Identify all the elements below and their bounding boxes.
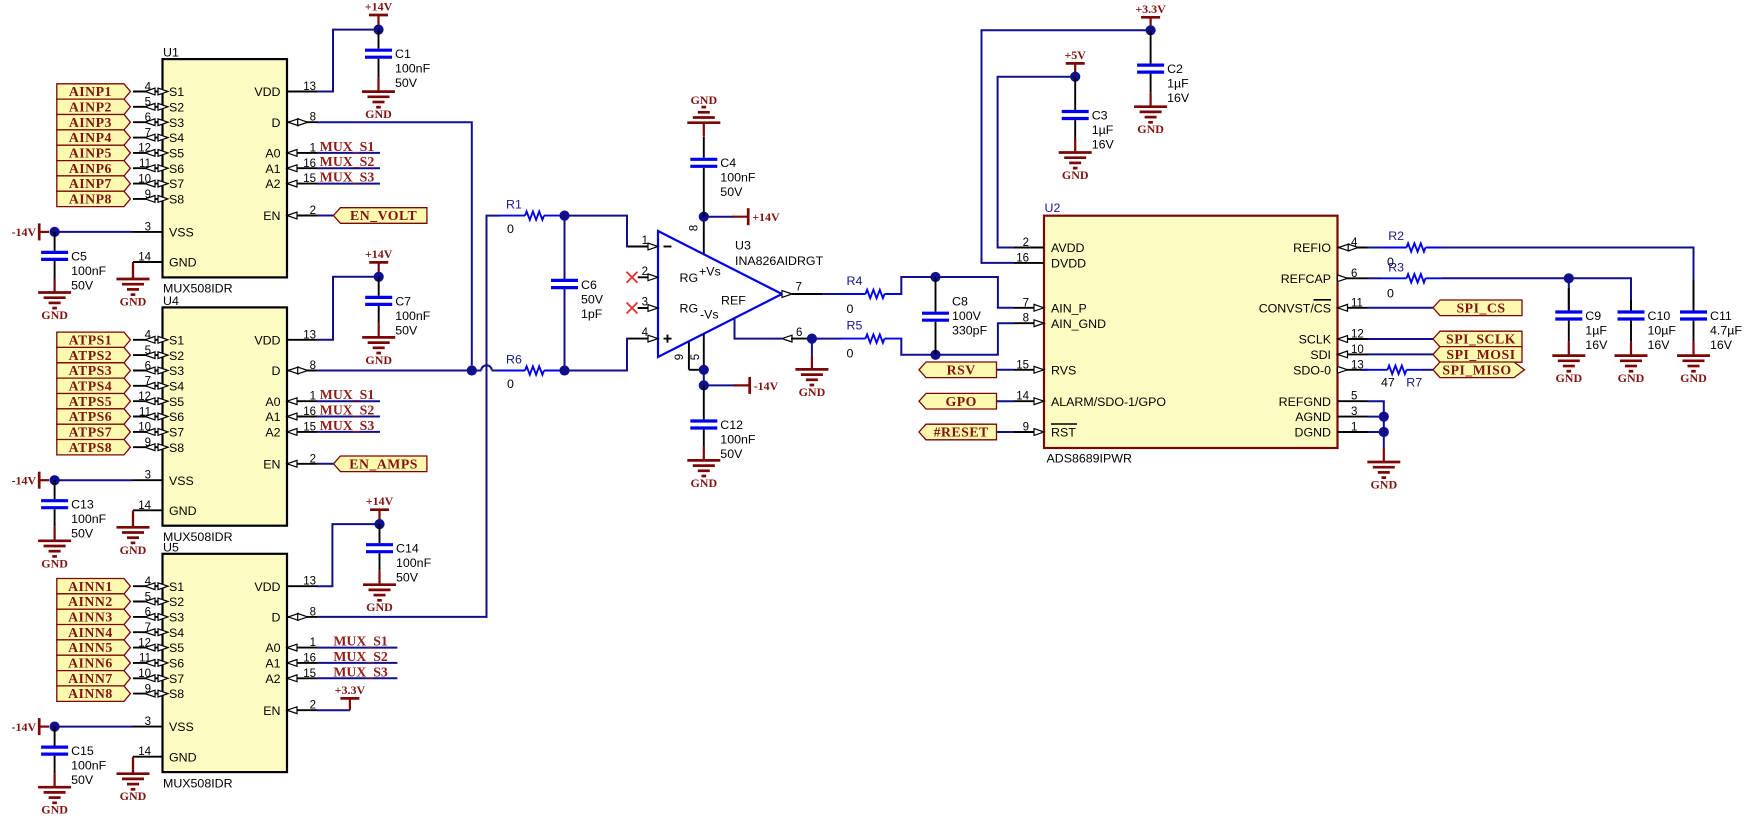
svg-text:GND: GND xyxy=(120,789,147,803)
power +14V xyxy=(365,247,393,272)
port AINN7 xyxy=(57,671,131,686)
svg-text:U2: U2 xyxy=(1045,201,1061,215)
svg-text:C13: C13 xyxy=(71,498,94,512)
svg-text:RVS: RVS xyxy=(1051,363,1076,377)
svg-text:13: 13 xyxy=(1351,359,1364,371)
wire xyxy=(1368,277,1383,279)
svg-text:C9: C9 xyxy=(1585,309,1601,323)
capacitor C4 xyxy=(690,137,756,217)
svg-text:330pF: 330pF xyxy=(952,324,988,338)
capacitor C5 xyxy=(41,232,107,292)
svg-text:MUX_S1: MUX_S1 xyxy=(333,634,388,649)
wire xyxy=(561,216,628,247)
svg-text:50V: 50V xyxy=(71,278,94,292)
port AINP7 xyxy=(57,176,131,191)
svg-text:10: 10 xyxy=(1351,344,1364,356)
svg-text:13: 13 xyxy=(303,329,316,341)
wire xyxy=(936,277,1015,308)
svg-text:7: 7 xyxy=(145,127,151,139)
net label MUX_S3 xyxy=(317,418,380,433)
ground xyxy=(795,355,828,399)
wire xyxy=(55,231,133,233)
svg-text:9: 9 xyxy=(145,683,151,695)
svg-text:R7: R7 xyxy=(1406,376,1422,390)
svg-text:A2: A2 xyxy=(265,177,280,191)
svg-text:MUX_S3: MUX_S3 xyxy=(333,664,388,679)
svg-text:AVDD: AVDD xyxy=(1051,241,1085,255)
svg-text:47: 47 xyxy=(1381,376,1395,390)
svg-text:50V: 50V xyxy=(395,323,418,337)
svg-text:GPO: GPO xyxy=(945,394,976,409)
svg-text:CONVST/CS: CONVST/CS xyxy=(1259,301,1331,315)
svg-text:SDI: SDI xyxy=(1310,348,1331,362)
svg-text:AINN5: AINN5 xyxy=(68,640,113,655)
svg-text:14: 14 xyxy=(138,746,151,758)
svg-text:R3: R3 xyxy=(1388,261,1404,275)
svg-text:1: 1 xyxy=(642,235,648,247)
svg-text:A1: A1 xyxy=(265,410,280,424)
svg-text:S6: S6 xyxy=(169,162,184,176)
svg-text:GND: GND xyxy=(1137,122,1164,136)
svg-text:4: 4 xyxy=(1351,237,1358,249)
port SPI_SCLK xyxy=(1433,331,1522,347)
net label MUX_S1 xyxy=(317,387,380,402)
junction xyxy=(374,519,384,529)
svg-text:100nF: 100nF xyxy=(720,171,756,185)
junction xyxy=(1070,72,1080,82)
svg-text:GND: GND xyxy=(365,107,392,121)
port EN_VOLT xyxy=(334,208,427,224)
svg-text:RST: RST xyxy=(1051,426,1076,440)
svg-text:RG: RG xyxy=(680,302,699,316)
svg-text:100nF: 100nF xyxy=(71,512,107,526)
capacitor C10 xyxy=(1618,300,1677,352)
port AINN3 xyxy=(57,609,131,624)
svg-text:12: 12 xyxy=(138,143,151,155)
svg-text:SPI_CS: SPI_CS xyxy=(1456,300,1505,315)
svg-text:4: 4 xyxy=(145,81,152,93)
ground xyxy=(1367,448,1400,492)
svg-text:5: 5 xyxy=(145,591,151,603)
svg-text:4: 4 xyxy=(145,330,152,342)
wire xyxy=(1366,369,1368,371)
svg-text:GND: GND xyxy=(1370,478,1397,492)
svg-text:10: 10 xyxy=(138,422,151,434)
svg-text:C5: C5 xyxy=(71,249,87,263)
svg-text:5: 5 xyxy=(690,354,702,360)
port RSV xyxy=(919,362,997,378)
wire xyxy=(997,431,1015,433)
junction xyxy=(50,722,60,732)
svg-text:EN: EN xyxy=(263,209,280,223)
svg-text:11: 11 xyxy=(139,653,151,665)
svg-text:ALARM/SDO-1/GPO: ALARM/SDO-1/GPO xyxy=(1051,395,1166,409)
svg-text:15: 15 xyxy=(303,421,316,433)
svg-text:7: 7 xyxy=(145,376,151,388)
ground xyxy=(687,93,720,137)
svg-text:U4: U4 xyxy=(163,294,179,308)
wire xyxy=(317,463,334,465)
svg-text:S8: S8 xyxy=(169,193,184,207)
svg-text:+14V: +14V xyxy=(366,494,394,508)
svg-text:-14V: -14V xyxy=(754,379,779,393)
svg-text:R1: R1 xyxy=(506,198,522,212)
svg-text:4.7µF: 4.7µF xyxy=(1710,323,1742,337)
svg-text:8: 8 xyxy=(1023,313,1029,325)
svg-text:3: 3 xyxy=(642,297,648,309)
wire xyxy=(1568,278,1570,310)
svg-text:ATPS5: ATPS5 xyxy=(69,394,113,409)
svg-text:DVDD: DVDD xyxy=(1051,257,1086,271)
svg-text:A0: A0 xyxy=(265,641,280,655)
svg-text:6: 6 xyxy=(145,112,151,124)
svg-text:7: 7 xyxy=(145,622,151,634)
svg-text:3: 3 xyxy=(1351,406,1357,418)
no-connect X xyxy=(627,303,638,314)
svg-text:U5: U5 xyxy=(163,540,179,554)
svg-text:C8: C8 xyxy=(952,295,968,309)
svg-text:16: 16 xyxy=(303,652,316,664)
svg-text:8: 8 xyxy=(310,360,316,372)
power +14V xyxy=(366,494,394,519)
svg-text:50V: 50V xyxy=(71,773,94,787)
svg-text:100nF: 100nF xyxy=(395,309,431,323)
svg-text:S4: S4 xyxy=(169,379,184,393)
svg-text:1: 1 xyxy=(1351,422,1357,434)
svg-text:4: 4 xyxy=(145,576,152,588)
capacitor C12 xyxy=(690,385,756,461)
svg-text:+14V: +14V xyxy=(752,210,780,224)
svg-text:3: 3 xyxy=(145,221,151,233)
svg-text:GND: GND xyxy=(366,600,393,614)
power +3.3V xyxy=(1135,2,1166,28)
svg-text:16V: 16V xyxy=(1585,338,1608,352)
svg-text:10: 10 xyxy=(138,668,151,680)
svg-text:-Vs: -Vs xyxy=(700,308,719,322)
svg-text:1µF: 1µF xyxy=(1585,323,1607,337)
power +14V xyxy=(365,0,393,25)
svg-text:REFIO: REFIO xyxy=(1293,241,1331,255)
svg-text:MUX_S3: MUX_S3 xyxy=(320,170,375,185)
wire xyxy=(317,122,472,365)
capacitor C8 xyxy=(922,277,988,355)
svg-text:MUX_S1: MUX_S1 xyxy=(320,387,375,402)
svg-text:D: D xyxy=(272,364,281,378)
no-connect X xyxy=(627,272,638,283)
junction xyxy=(1379,412,1389,422)
ground xyxy=(1059,139,1092,183)
wire xyxy=(1368,431,1384,433)
svg-text:VSS: VSS xyxy=(169,474,194,488)
svg-text:ATPS6: ATPS6 xyxy=(69,409,113,424)
svg-text:+Vs: +Vs xyxy=(699,265,721,279)
port AINP6 xyxy=(57,161,131,176)
capacitor C3 xyxy=(1062,77,1115,152)
svg-text:16V: 16V xyxy=(1648,338,1671,352)
port AINP5 xyxy=(57,145,131,160)
svg-text:S1: S1 xyxy=(169,85,184,99)
svg-text:EN: EN xyxy=(263,457,280,471)
svg-text:ATPS7: ATPS7 xyxy=(69,425,113,440)
resistor R6 xyxy=(501,353,561,392)
svg-text:100nF: 100nF xyxy=(71,264,107,278)
junction xyxy=(699,212,709,222)
svg-text:S6: S6 xyxy=(169,657,184,671)
port AINP4 xyxy=(57,130,131,145)
port #RESET xyxy=(919,424,997,440)
svg-text:16V: 16V xyxy=(1092,137,1115,151)
svg-text:S1: S1 xyxy=(169,580,184,594)
svg-text:C2: C2 xyxy=(1167,62,1183,76)
svg-text:0: 0 xyxy=(507,377,514,391)
port AINP2 xyxy=(57,99,131,114)
svg-text:MUX_S3: MUX_S3 xyxy=(320,418,375,433)
svg-text:MUX_S2: MUX_S2 xyxy=(320,154,375,169)
svg-text:AINP8: AINP8 xyxy=(69,192,112,207)
svg-text:MUX508IDR: MUX508IDR xyxy=(163,776,233,790)
power -14V xyxy=(12,718,49,735)
svg-text:ADS8689IPWR: ADS8689IPWR xyxy=(1047,452,1132,466)
port AINN4 xyxy=(57,625,131,640)
svg-text:14: 14 xyxy=(1016,391,1029,403)
wire xyxy=(901,277,931,294)
port AINN5 xyxy=(57,640,131,655)
net label MUX_S2 xyxy=(317,403,380,418)
power -14V xyxy=(12,472,49,489)
svg-text:S4: S4 xyxy=(169,131,184,145)
svg-text:A1: A1 xyxy=(265,657,280,671)
wire xyxy=(317,215,334,217)
svg-text:R2: R2 xyxy=(1388,229,1404,243)
port SPI_MOSI xyxy=(1433,347,1522,363)
capacitor C15 xyxy=(41,727,107,787)
port ATPS4 xyxy=(57,378,131,393)
svg-text:15: 15 xyxy=(303,668,316,680)
svg-text:5: 5 xyxy=(145,97,151,109)
power +14V xyxy=(704,208,780,225)
wire xyxy=(822,293,841,295)
svg-text:S5: S5 xyxy=(169,641,184,655)
svg-text:AINN8: AINN8 xyxy=(68,686,113,701)
svg-text:S3: S3 xyxy=(169,364,184,378)
svg-text:VDD: VDD xyxy=(254,85,280,99)
svg-text:16V: 16V xyxy=(1710,338,1733,352)
svg-text:A0: A0 xyxy=(265,147,280,161)
net label MUX_S3 xyxy=(317,170,380,185)
ground xyxy=(38,279,71,323)
svg-text:50V: 50V xyxy=(71,527,94,541)
svg-text:2: 2 xyxy=(310,205,316,217)
wire xyxy=(1368,247,1383,249)
svg-text:VDD: VDD xyxy=(254,580,280,594)
svg-text:-14V: -14V xyxy=(12,225,37,239)
op-amp U3 xyxy=(628,217,824,370)
ground xyxy=(1552,342,1585,386)
svg-text:8: 8 xyxy=(310,606,316,618)
svg-text:D: D xyxy=(272,611,281,625)
power +5V xyxy=(1064,48,1086,74)
wire xyxy=(317,524,375,586)
svg-text:DGND: DGND xyxy=(1295,426,1332,440)
svg-text:S5: S5 xyxy=(169,395,184,409)
net label MUX_S1 xyxy=(317,634,397,649)
svg-text:GND: GND xyxy=(1555,371,1582,385)
junction xyxy=(1564,273,1574,283)
ground xyxy=(362,323,395,367)
port AINP8 xyxy=(57,191,131,206)
svg-text:S6: S6 xyxy=(169,410,184,424)
port ATPS2 xyxy=(57,347,131,362)
svg-text:EN_AMPS: EN_AMPS xyxy=(349,456,418,471)
svg-text:SPI_MISO: SPI_MISO xyxy=(1442,362,1511,377)
capacitor C7 xyxy=(365,277,431,338)
svg-text:MUX_S2: MUX_S2 xyxy=(320,403,375,418)
svg-text:A2: A2 xyxy=(265,672,280,686)
svg-text:A0: A0 xyxy=(265,395,280,409)
svg-text:S7: S7 xyxy=(169,177,184,191)
wire xyxy=(1423,369,1433,371)
svg-text:14: 14 xyxy=(138,252,151,264)
svg-text:S1: S1 xyxy=(169,333,184,347)
svg-text:9: 9 xyxy=(674,354,686,360)
port ATPS1 xyxy=(57,332,131,347)
wire xyxy=(901,339,931,355)
svg-text:0: 0 xyxy=(507,222,514,236)
port GPO xyxy=(919,393,997,409)
svg-text:C12: C12 xyxy=(720,418,743,432)
wire xyxy=(997,400,1015,402)
resistor R4 xyxy=(841,274,901,316)
svg-text:#RESET: #RESET xyxy=(934,425,989,440)
svg-text:AINP1: AINP1 xyxy=(69,84,112,99)
svg-text:9: 9 xyxy=(145,437,151,449)
svg-text:GND: GND xyxy=(120,295,147,309)
svg-text:10µF: 10µF xyxy=(1648,323,1677,337)
port EN_AMPS xyxy=(334,456,427,472)
svg-text:1: 1 xyxy=(310,142,316,154)
ground xyxy=(1677,342,1710,386)
svg-text:8: 8 xyxy=(310,112,316,124)
svg-text:12: 12 xyxy=(1351,329,1364,341)
svg-text:R5: R5 xyxy=(847,319,863,333)
svg-text:3: 3 xyxy=(145,470,151,482)
svg-text:4: 4 xyxy=(642,327,649,339)
port AINP1 xyxy=(57,84,131,99)
junction xyxy=(50,475,60,485)
svg-text:RG: RG xyxy=(680,271,699,285)
svg-text:S2: S2 xyxy=(169,100,184,114)
svg-text:SPI_SCLK: SPI_SCLK xyxy=(1446,332,1516,347)
junction xyxy=(699,365,709,375)
wire xyxy=(703,370,705,386)
svg-text:1µF: 1µF xyxy=(1092,123,1114,137)
svg-text:SPI_MOSI: SPI_MOSI xyxy=(1446,347,1515,362)
net label MUX_S1 xyxy=(317,139,380,154)
svg-text:A2: A2 xyxy=(265,426,280,440)
svg-text:1µF: 1µF xyxy=(1167,77,1189,91)
svg-text:REF: REF xyxy=(721,294,746,308)
ground xyxy=(362,78,395,122)
wire xyxy=(317,277,374,340)
svg-text:5: 5 xyxy=(145,345,151,357)
svg-text:12: 12 xyxy=(138,391,151,403)
svg-text:9: 9 xyxy=(1023,422,1029,434)
junction xyxy=(559,211,569,221)
port SPI_MISO xyxy=(1433,362,1525,378)
power +3.3V xyxy=(335,683,366,710)
svg-text:ATPS4: ATPS4 xyxy=(69,378,113,393)
svg-text:7: 7 xyxy=(796,282,802,294)
svg-text:16: 16 xyxy=(1016,252,1029,264)
svg-text:50V: 50V xyxy=(396,571,419,585)
svg-text:AINN2: AINN2 xyxy=(68,594,113,609)
junction xyxy=(807,334,817,344)
svg-text:S8: S8 xyxy=(169,687,184,701)
svg-text:D: D xyxy=(272,116,281,130)
ground xyxy=(363,571,396,615)
ground xyxy=(1134,93,1167,137)
svg-text:C3: C3 xyxy=(1092,108,1108,122)
svg-text:MUX_S2: MUX_S2 xyxy=(333,649,388,664)
svg-text:ATPS3: ATPS3 xyxy=(69,363,113,378)
svg-text:6: 6 xyxy=(796,327,802,339)
svg-text:C1: C1 xyxy=(395,47,411,61)
wire xyxy=(1368,338,1434,340)
wire xyxy=(1368,416,1384,418)
wire xyxy=(735,318,783,339)
wire xyxy=(1442,278,1631,310)
svg-text:100nF: 100nF xyxy=(395,62,431,76)
junction xyxy=(50,227,60,237)
svg-text:U3: U3 xyxy=(735,239,751,253)
ground xyxy=(117,757,150,804)
svg-text:3: 3 xyxy=(145,716,151,728)
svg-text:GND: GND xyxy=(169,750,197,764)
port ATPS7 xyxy=(57,424,131,439)
svg-text:100nF: 100nF xyxy=(396,556,432,570)
svg-text:EN_VOLT: EN_VOLT xyxy=(350,208,417,223)
multiplexer U1 xyxy=(133,46,318,296)
svg-text:INA826AIDRGT: INA826AIDRGT xyxy=(735,254,824,268)
wire xyxy=(1368,401,1384,448)
svg-text:13: 13 xyxy=(303,81,316,93)
svg-text:15: 15 xyxy=(303,173,316,185)
svg-text:GND: GND xyxy=(690,476,717,490)
svg-text:GND: GND xyxy=(690,93,717,107)
svg-text:11: 11 xyxy=(139,406,151,418)
ground xyxy=(1615,342,1648,386)
svg-text:AIN_P: AIN_P xyxy=(1051,301,1087,315)
svg-text:100V: 100V xyxy=(952,309,982,323)
svg-text:50V: 50V xyxy=(581,293,604,307)
svg-text:SDO-0: SDO-0 xyxy=(1293,363,1331,377)
svg-text:+14V: +14V xyxy=(365,247,393,261)
svg-text:AINN7: AINN7 xyxy=(68,671,113,686)
svg-text:6: 6 xyxy=(145,360,151,372)
ground xyxy=(38,773,71,817)
svg-text:1: 1 xyxy=(310,391,316,403)
ground xyxy=(117,262,150,309)
wire xyxy=(317,365,501,370)
svg-text:SCLK: SCLK xyxy=(1299,333,1332,347)
wire xyxy=(55,726,133,728)
svg-text:-14V: -14V xyxy=(12,720,37,734)
capacitor C11 xyxy=(1680,280,1742,352)
svg-text:AIN_GND: AIN_GND xyxy=(1051,317,1106,331)
port SPI_CS xyxy=(1433,300,1522,316)
junction xyxy=(930,272,940,282)
svg-text:-14V: -14V xyxy=(12,474,37,488)
